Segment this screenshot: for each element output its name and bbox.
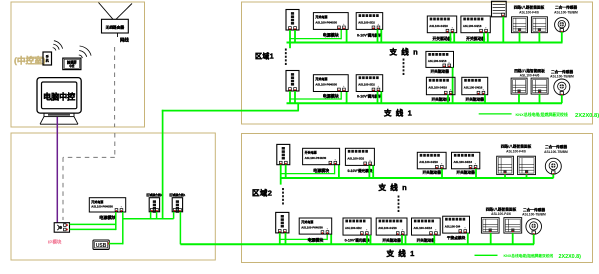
equipment room frame bottom-left — [11, 133, 215, 260]
wire PSU connector 2 drop to USB rail — [122, 212, 124, 244]
svg-text:开关电源: 开关电源 — [315, 14, 327, 19]
wire dimmer drops branch1 zone2 — [367, 235, 371, 244]
dots below zone2 coupler n — [282, 188, 284, 205]
trunk wire zone2 horizontal (to bottom-right box) — [180, 243, 534, 245]
svg-text:开关电源: 开关电源 — [301, 219, 313, 224]
trunk wire zone1 riser (vertical) — [162, 110, 164, 220]
wire sensor drop branch1 zone1 — [561, 95, 563, 103]
svg-text:ASL100-SD2: ASL100-SD2 — [347, 156, 364, 160]
svg-text:2X2X0.8): 2X2X0.8) — [559, 254, 582, 260]
svg-text:0-10V'调光模块: 0-10V'调光模块 — [357, 94, 382, 99]
svg-text:二合一传感器: 二合一传感器 — [545, 144, 567, 149]
line coupler branch 1 zone1 — [286, 71, 299, 92]
svg-text:ASL100-S4/16: ASL100-S4/16 — [454, 160, 473, 164]
wire panel drops branch1 zone1 — [519, 94, 540, 103]
wire dimmer drops branch1 zone1 — [378, 92, 382, 104]
switch driver B branch1 zone1 — [426, 77, 455, 101]
wire sensor drop branch n zone2 — [552, 174, 554, 178]
wire PSU staple branch n zone1 — [289, 29, 346, 42]
svg-text:IP模块: IP模块 — [48, 239, 62, 246]
wire tallbox drops branch n zone2 — [281, 165, 286, 185]
svg-text:ASL100-P640/30: ASL100-P640/30 — [301, 226, 323, 230]
wire dimmer drops branch n zone2 — [369, 165, 373, 178]
svg-text:区域1: 区域1 — [255, 52, 274, 61]
svg-text:开关电源: 开关电源 — [315, 76, 327, 81]
svg-text:ASL100-SD2: ASL100-SD2 — [358, 83, 375, 87]
svg-text:ASL100-S4/16: ASL100-S4/16 — [419, 160, 438, 164]
svg-text:ASL100-P640/30: ASL100-P640/30 — [315, 83, 337, 87]
svg-text:KNX总线电缆(阻燃屏蔽双绞线: KNX总线电缆(阻燃屏蔽双绞线 — [504, 253, 554, 258]
IP interface module — [54, 223, 69, 233]
svg-text:开关驱动器: 开关驱动器 — [466, 36, 485, 41]
wire PSU staple branch1 zone2 — [279, 234, 331, 244]
wire switch1 drops branch n zone1 — [450, 33, 454, 43]
wire tallbox drops branch1 zone2 — [280, 233, 286, 244]
wire coupler1 left drop — [173, 212, 175, 219]
switch driver A (stepped) branch1 zone1 — [426, 51, 454, 73]
wire switchC drop branch1 zone1 — [484, 95, 486, 104]
0-10V dimmer module branch n zone1 — [356, 13, 383, 38]
wireless router U-router — [102, 19, 129, 33]
svg-text:2X2X0.8): 2X2X0.8) — [575, 113, 599, 119]
svg-text:ASL100-P640/30: ASL100-P640/30 — [315, 21, 337, 25]
svg-text:电源模块: 电源模块 — [99, 214, 117, 221]
control room frame (中控室) — [11, 2, 145, 127]
svg-text:ASL100-S4/16: ASL100-S4/16 — [428, 59, 447, 63]
svg-text:四路/八路智能面板: 四路/八路智能面板 — [514, 5, 545, 10]
legend line zone1 — [479, 113, 512, 115]
distribution cabinet branch n zone1 — [492, 1, 507, 16]
network cable dashed run (top) — [114, 47, 116, 127]
smart panel 2 branch n zone1 — [531, 17, 547, 33]
smart panel 2 branch n zone2 — [518, 156, 536, 174]
dots below zone1 coupler n — [285, 49, 287, 66]
svg-text:二合一传感器: 二合一传感器 — [555, 5, 577, 10]
svg-text:ASL100-S4/16: ASL100-S4/16 — [428, 86, 447, 90]
svg-text:ASL100-F4/6: ASL100-F4/6 — [519, 11, 539, 15]
wire PSU staple branch1 zone1 — [289, 92, 346, 104]
2-in-1 sensor branch1 zone1 — [554, 79, 570, 95]
2-in-1 sensor branch1 zone2 — [526, 219, 542, 235]
svg-text:电源模块: 电源模块 — [313, 167, 329, 173]
svg-text:0-10V'调光模块: 0-10V'调光模块 — [345, 237, 370, 242]
monitor stand and base — [40, 113, 78, 124]
0-10V dimmer module branch1 zone1 — [356, 75, 383, 99]
router antenna — [99, 3, 133, 20]
dots between branches zone2 — [398, 196, 400, 213]
0-10V dimmer module branch1 zone2 — [343, 218, 371, 242]
trunk wire zone1 horizontal — [162, 110, 298, 112]
svg-text:ASL100-TB/BM: ASL100-TB/BM — [554, 11, 578, 15]
switch driver 2 branch n zone1 — [461, 16, 490, 41]
svg-text:电源模块: 电源模块 — [323, 93, 339, 99]
switch driver 1 branch n zone1 — [427, 16, 456, 41]
0-10V dimmer module branch n zone2 — [345, 148, 374, 173]
zone 1 frame top-right — [242, 2, 593, 124]
svg-text:区域2: 区域2 — [252, 187, 272, 197]
svg-text:ASL100-TB/BM: ASL100-TB/BM — [522, 213, 546, 217]
label smart panels branch1 zone2 — [486, 206, 517, 216]
switch driver 2 branch n zone2 — [452, 152, 480, 174]
zone 2 frame bottom-right — [242, 134, 593, 263]
svg-text:开关驱动器: 开关驱动器 — [422, 170, 441, 175]
svg-text:二合一传感器: 二合一传感器 — [523, 207, 545, 212]
wire IP module to PSU (lower) — [70, 228, 116, 230]
2-in-1 sensor branch n zone1 — [555, 18, 569, 32]
svg-text:开关驱动器: 开关驱动器 — [417, 237, 436, 242]
wire dimmer drops branch n zone1 — [378, 29, 382, 42]
wire cabinet drop zone1 — [502, 17, 504, 43]
svg-text:ASL100-S4/16: ASL100-S4/16 — [464, 86, 483, 90]
wire tallbox n drops zone1 — [290, 30, 295, 48]
USB interface box — [93, 240, 110, 249]
wire switch3 drops branch1 zone2 — [402, 235, 406, 244]
wire IP module to PSU (upper) — [70, 223, 116, 225]
wire panel drops branch1 zone2 — [491, 233, 513, 244]
dots between branches zone1 — [403, 59, 405, 76]
svg-text:KNX总线电缆(阻燃屏蔽双绞线: KNX总线电缆(阻燃屏蔽双绞线 — [516, 112, 568, 117]
wire module5 drop branch1 zone2 — [467, 233, 469, 244]
svg-text:支 线 1: 支 线 1 — [386, 248, 416, 258]
svg-text:ASL100-S4/16: ASL100-S4/16 — [463, 24, 482, 28]
branch n bus wire (zone1) — [287, 42, 563, 44]
svg-text:无线路由器: 无线路由器 — [105, 25, 125, 30]
wire switch2 drops branch n zone1 — [484, 33, 488, 43]
svg-text:ASL100-DI4: ASL100-DI4 — [445, 224, 461, 228]
PSU module branch n zone1 — [313, 13, 348, 38]
label smart panels branch n zone2 — [501, 144, 532, 154]
svg-text:触摸屏: 触摸屏 — [67, 60, 77, 65]
network cable dashed run (bottom) — [63, 133, 115, 220]
svg-text:开关驱动器: 开关驱动器 — [430, 69, 449, 74]
wire coupler1 right drop to zone2 trunk — [179, 212, 181, 245]
svg-text:电脑中控: 电脑中控 — [43, 92, 75, 102]
wire sensor drop branch n zone1 — [561, 32, 563, 43]
switch driver 1 branch n zone2 — [417, 152, 446, 174]
wireless phone remote — [43, 52, 52, 65]
svg-text:0-10V'调光模块: 0-10V'调光模块 — [357, 33, 382, 38]
zone coupler 2 (区域耦合器2) — [149, 198, 159, 213]
svg-text:ASL100-S4/16: ASL100-S4/16 — [414, 226, 433, 230]
svg-text:开关电源: 开关电源 — [91, 199, 103, 204]
svg-text:干接点模块: 干接点模块 — [447, 235, 466, 240]
smart panel 1 branch1 zone1 — [511, 78, 527, 94]
wire coupler2 left drop — [150, 212, 152, 219]
wire USB to PSU riser — [109, 243, 123, 245]
label sensor branch1 zone2 — [522, 207, 546, 217]
svg-text:ASL100-S4/16: ASL100-S4/16 — [429, 24, 448, 28]
smart panel 1 branch n zone1 — [512, 17, 528, 33]
wire coupler feed rail — [123, 218, 174, 220]
2-in-1 sensor branch n zone2 — [545, 158, 561, 174]
PSU module branch1 zone2 — [299, 218, 332, 242]
svg-text:中控: 中控 — [69, 64, 75, 68]
svg-text:ASL100-TB/BM: ASL100-TB/BM — [544, 150, 568, 154]
label sensor branch n zone1 — [554, 5, 578, 15]
label smart panels branch1 zone1 — [514, 68, 545, 78]
svg-text:四路/八路智能面板: 四路/八路智能面板 — [514, 68, 545, 73]
smart panel 2 branch1 zone2 — [504, 218, 522, 234]
svg-text:ASL100-SD2: ASL100-SD2 — [345, 226, 362, 230]
line coupler branch n zone1 — [286, 10, 299, 31]
smart panel 1 branch1 zone2 — [481, 218, 499, 234]
svg-text:区域耦合器2: 区域耦合器2 — [146, 192, 162, 197]
wire tallbox drops branch1 zone1 — [290, 91, 295, 103]
svg-text:机: 机 — [46, 58, 49, 63]
legend text zone2 — [504, 253, 582, 260]
serial cable monitor to IP module (purple) — [56, 117, 58, 223]
switch driver 4 branch1 zone2 — [412, 218, 441, 242]
wire PSU staple branch n zone2 — [280, 165, 339, 178]
svg-text:ASL100-P640/30: ASL100-P640/30 — [91, 204, 113, 208]
trunk wire into zone1 branch bus riser — [297, 103, 299, 112]
smart panel 1 branch n zone2 — [497, 156, 514, 174]
central control computer monitor 电脑中控 — [37, 78, 81, 114]
switch driver 3 branch1 zone2 — [376, 218, 407, 242]
svg-text:开关电源: 开关电源 — [305, 150, 317, 155]
PSU module branch n zone2 — [303, 148, 340, 173]
power supply module PSU (equipment room) — [89, 198, 125, 222]
wire router to 网线 label — [117, 33, 119, 37]
tablet wifi arcs — [79, 46, 91, 58]
legend text zone1 — [516, 112, 599, 119]
svg-text:开关驱动器: 开关驱动器 — [466, 96, 485, 101]
phone wifi arcs — [53, 41, 63, 51]
line coupler branch 1 zone2 — [276, 212, 289, 233]
wire stepped box drop zone1 — [452, 67, 454, 103]
legend line zone2 — [475, 254, 498, 256]
smart panel 2 branch1 zone1 — [531, 78, 548, 94]
svg-text:电源模块: 电源模块 — [323, 32, 339, 38]
wire panel drops branch n zone1 — [520, 33, 540, 43]
svg-text:ASL100-TB/BM: ASL100-TB/BM — [550, 75, 574, 79]
svg-text:电源模块: 电源模块 — [307, 236, 323, 242]
line coupler branch n zone2 — [277, 144, 290, 164]
wireless touch panel — [63, 58, 81, 70]
svg-text:支 线 n: 支 线 n — [378, 182, 408, 192]
svg-text:区域耦合器1: 区域耦合器1 — [169, 192, 185, 197]
zone coupler 1 (区域耦合器1) — [172, 198, 182, 213]
wire PSU connector 1 drop — [115, 212, 117, 230]
label smart panels branch n zone1 — [514, 5, 545, 15]
svg-text:ASL100-P640/30: ASL100-P640/30 — [305, 156, 327, 160]
branch 1 bus wire (zone1) — [287, 102, 563, 104]
svg-text:支 线 n: 支 线 n — [389, 47, 419, 57]
wire switchB drop branch1 zone1 — [447, 95, 449, 104]
svg-text:ASL100-SD2: ASL100-SD2 — [358, 21, 375, 25]
svg-text:开关驱动器: 开关驱动器 — [382, 237, 401, 242]
label sensor branch n zone2 — [544, 144, 568, 154]
PSU module branch1 zone1 — [313, 75, 348, 99]
svg-text:ASL100-F4/6: ASL100-F4/6 — [506, 150, 526, 154]
dry contact module branch1 zone2 — [443, 216, 470, 240]
label sensor branch1 zone1 — [550, 69, 574, 79]
svg-text:四路/八路智能面板: 四路/八路智能面板 — [501, 144, 532, 149]
svg-text:ASL100-S4/16: ASL100-S4/16 — [378, 226, 397, 230]
wire switch2 drop branch n zone2 — [475, 169, 477, 178]
svg-text:四路/八路智能面板: 四路/八路智能面板 — [486, 206, 517, 211]
svg-text:开关驱动器: 开关驱动器 — [433, 36, 452, 41]
svg-text:(中控室): (中控室) — [14, 55, 46, 66]
svg-text:网线: 网线 — [120, 37, 129, 44]
svg-text:ASL100-F4/6: ASL100-F4/6 — [520, 74, 540, 78]
wire coupler2 right drop (main trunk tap) — [156, 212, 158, 219]
wire sensor drop branch1 zone2 — [533, 234, 535, 244]
wire switch4 drop branch1 zone2 — [433, 235, 435, 244]
svg-text:支 线 1: 支 线 1 — [383, 108, 413, 118]
svg-text:二合一传感器: 二合一传感器 — [551, 69, 573, 74]
svg-text:开关驱动器: 开关驱动器 — [456, 170, 475, 175]
switch driver C branch1 zone1 — [462, 77, 488, 101]
wire switch1 drop branch n zone2 — [441, 169, 443, 178]
wire panel drops branch n zone2 — [505, 175, 527, 178]
svg-text:ASL100-F4/6: ASL100-F4/6 — [491, 212, 511, 216]
branch n bus wire (zone2) — [281, 177, 554, 179]
svg-text:USB: USB — [96, 243, 107, 249]
